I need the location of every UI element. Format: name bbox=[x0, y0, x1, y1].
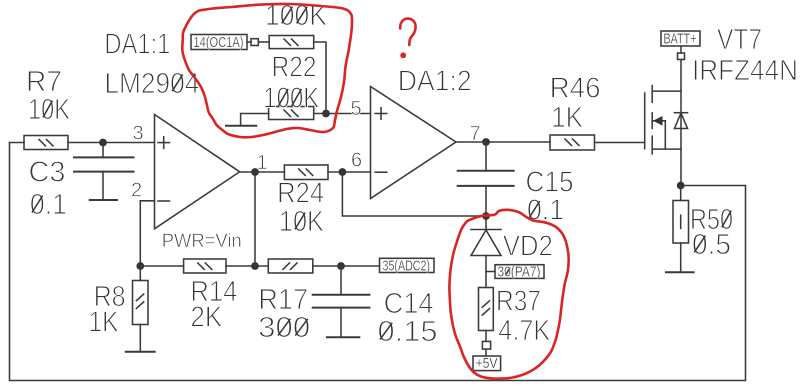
node pin7 junction bbox=[482, 138, 490, 146]
wire R22 to node bbox=[314, 42, 326, 114]
svg-text:0.5: 0.5 bbox=[692, 229, 731, 261]
svg-text:0.15: 0.15 bbox=[378, 316, 438, 348]
pad square BATT+ bbox=[678, 53, 685, 60]
red circle around R22 bbox=[182, 4, 352, 137]
svg-text:1: 1 bbox=[257, 152, 268, 174]
svg-text:PWR=Vin: PWR=Vin bbox=[162, 230, 242, 252]
wire op-amp1 output bbox=[240, 171, 285, 173]
capacitor C3 bbox=[102, 143, 104, 158]
node R22/100K junction bbox=[322, 110, 330, 118]
svg-text:VT7: VT7 bbox=[717, 24, 762, 56]
svg-text:14(OC1A): 14(OC1A) bbox=[194, 34, 244, 51]
wire lower rail to R14 bbox=[140, 265, 183, 267]
boxed label texts bbox=[194, 30, 697, 372]
svg-text:10K: 10K bbox=[28, 94, 71, 126]
ground C14 bbox=[327, 336, 359, 338]
wire op-amp2 output bbox=[456, 141, 550, 143]
resistor R46 bbox=[550, 135, 595, 150]
node op-amp1 output bbox=[251, 168, 259, 176]
wire op-amp1 output down bbox=[254, 172, 256, 266]
pad square +5V bbox=[482, 341, 490, 349]
op-amp DA1:1 bbox=[155, 115, 240, 229]
wire drain rail bbox=[680, 60, 682, 186]
svg-text:1K: 1K bbox=[89, 306, 120, 338]
svg-text:10K: 10K bbox=[279, 206, 325, 238]
svg-text:DA1:1: DA1:1 bbox=[104, 29, 170, 61]
node lower-rail left junction bbox=[136, 262, 144, 270]
svg-text:4.7K: 4.7K bbox=[498, 315, 551, 347]
svg-text:5: 5 bbox=[351, 98, 362, 120]
svg-text:100K: 100K bbox=[263, 82, 320, 114]
svg-text:7: 7 bbox=[470, 123, 481, 145]
svg-text:3: 3 bbox=[133, 123, 144, 145]
label box 14(OC1A) bbox=[191, 35, 247, 50]
ground 100K bbox=[241, 114, 269, 126]
resistor R17 bbox=[268, 259, 313, 273]
node C14 junction bbox=[337, 262, 345, 270]
svg-text:R24: R24 bbox=[277, 177, 324, 209]
wire R17 to ADC box bbox=[313, 265, 380, 267]
capacitor C15 bbox=[485, 142, 487, 171]
red circle around VD2/R37 bbox=[449, 210, 568, 379]
slashed zeros overlay bbox=[32, 7, 731, 340]
svg-text:0.1: 0.1 bbox=[30, 189, 67, 221]
svg-text:R22: R22 bbox=[272, 51, 317, 83]
label box BATT+ bbox=[661, 31, 700, 46]
svg-text:35(ADC2): 35(ADC2) bbox=[383, 258, 431, 275]
svg-text:R17: R17 bbox=[258, 284, 308, 316]
svg-text:2: 2 bbox=[131, 180, 142, 202]
resistor R24 bbox=[284, 165, 328, 180]
resistor R37 bbox=[479, 288, 494, 331]
wire pin6 feedback bbox=[342, 172, 486, 216]
node pin3 junction bbox=[99, 139, 107, 147]
capacitor C14 bbox=[340, 266, 342, 295]
pin numbers bbox=[131, 98, 481, 202]
label box 35(ADC2) bbox=[380, 258, 435, 272]
diode body VT7 bbox=[674, 112, 687, 114]
diode VD2 bbox=[485, 216, 487, 230]
svg-text:6: 6 bbox=[351, 150, 362, 172]
label box +5V bbox=[473, 356, 501, 371]
svg-text:VD2: VD2 bbox=[503, 231, 553, 263]
resistor R50 bbox=[680, 186, 682, 201]
wire R7 to pin3 bbox=[68, 142, 155, 144]
svg-text:R46: R46 bbox=[550, 73, 601, 105]
pad square OC1A bbox=[251, 39, 258, 46]
svg-text:BATT+: BATT+ bbox=[664, 30, 697, 47]
svg-text:+5V: +5V bbox=[476, 355, 498, 372]
wire R7 left lead bbox=[10, 142, 25, 144]
node pin6 junction bbox=[339, 168, 347, 176]
svg-text:C14: C14 bbox=[384, 288, 434, 320]
node C15 bottom junction bbox=[482, 212, 490, 220]
transistor VT7 bbox=[644, 93, 646, 149]
ground C3 bbox=[90, 199, 117, 201]
wire R14 to R17 bbox=[226, 265, 268, 267]
wire R24 to pin6 bbox=[328, 171, 371, 173]
red question mark bbox=[400, 19, 415, 45]
resistor 100K (lower) bbox=[269, 107, 314, 120]
node output feedback junction bbox=[251, 262, 259, 270]
wire pin2 bbox=[140, 201, 154, 266]
label box 30(PA7) bbox=[486, 271, 495, 273]
svg-text:LM2904: LM2904 bbox=[104, 68, 199, 100]
svg-text:30(PA7): 30(PA7) bbox=[498, 264, 541, 281]
node source junction bbox=[677, 182, 685, 190]
wire feedback loop (left/bottom/right) bbox=[10, 143, 746, 381]
op-amp DA1:2 bbox=[371, 87, 457, 199]
resistor R7 bbox=[24, 136, 68, 150]
red annotations bbox=[182, 4, 568, 379]
svg-text:C3: C3 bbox=[29, 156, 66, 188]
ground R8 bbox=[126, 351, 155, 353]
resistor R14 bbox=[184, 259, 226, 273]
wire R46 to gate bbox=[595, 142, 645, 144]
svg-text:DA1:2: DA1:2 bbox=[398, 66, 472, 98]
svg-text:1K: 1K bbox=[551, 102, 584, 134]
svg-text:R37: R37 bbox=[496, 285, 541, 317]
resistor R22 bbox=[269, 36, 314, 49]
svg-text:IRFZ44N: IRFZ44N bbox=[692, 55, 798, 87]
ground R50 bbox=[666, 271, 694, 273]
wire node to pin5 bbox=[314, 113, 371, 115]
resistor R8 bbox=[139, 266, 141, 281]
svg-text:2K: 2K bbox=[190, 301, 223, 333]
